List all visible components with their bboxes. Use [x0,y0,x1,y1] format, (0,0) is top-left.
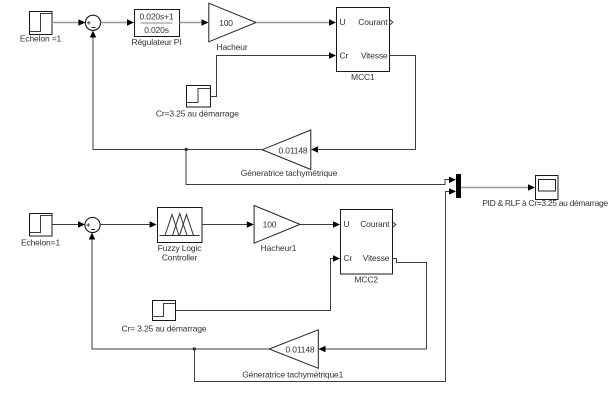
mux [456,174,461,198]
gain Hacheur (100) [209,3,256,52]
wire MCC2 Vitesse to gain tachymétrique1 [319,259,427,353]
wire PI block to gain Hacheur [180,19,209,25]
wire gain Hacheur1 to MCC2 port U [300,221,340,227]
wire mux to scope [461,184,535,190]
svg-text:Vitesse: Vitesse [361,50,388,60]
wire step2 to sum2 [52,221,85,227]
svg-text:PID & RLF à Cr=3.25 au démarra: PID & RLF à Cr=3.25 au démarrage [482,198,608,208]
wire gain tachymétrique to sum1 (feedback) [90,31,262,150]
transfer function Régulateur PI [131,10,181,47]
junction node top feedback [185,148,188,151]
wire step Cr1 to MCC1 port Cr [211,52,337,96]
Fuzzy Logic Controller block [158,208,203,263]
svg-text:Géneratrice tachymétrique: Géneratrice tachymétrique [241,168,338,178]
step source Cr= 3.25 au démarrage (bottom) [122,301,207,334]
svg-text:Echelon=1: Echelon=1 [21,238,60,248]
subsystem MCC1 [337,8,393,83]
svg-text:100: 100 [219,18,233,28]
wire sum2 to Fuzzy Logic Controller [100,221,157,227]
wire gain Hacheur to MCC1 port U [256,19,336,25]
svg-text:0.01148: 0.01148 [285,345,314,355]
svg-text:100: 100 [263,220,277,230]
svg-text:U: U [340,17,346,27]
wire MCC1 Vitesse to gain tachymétrique [311,56,416,153]
svg-text:U: U [344,219,350,229]
svg-text:0.020s: 0.020s [144,25,169,35]
svg-text:Hacheur: Hacheur [216,42,247,52]
svg-text:Cr=3.25 au démarrage: Cr=3.25 au démarrage [156,108,239,118]
svg-text:Fuzzy Logic: Fuzzy Logic [158,243,203,253]
junction node bottom feedback [193,347,196,350]
gain Hacheur1 (100) [254,206,300,254]
svg-text:Courant: Courant [360,219,390,229]
svg-text:MCC1: MCC1 [351,72,375,82]
svg-text:Echelon =1: Echelon =1 [20,33,62,43]
wire step Cr2 to MCC2 port Cr [176,255,341,310]
svg-text:Hacheur1: Hacheur1 [261,243,297,253]
svg-text:Courant: Courant [358,17,388,27]
svg-text:MCC2: MCC2 [354,274,378,284]
step source Echelon=1 (bottom) [21,214,60,248]
subsystem MCC2 [341,210,396,285]
wire FLC to gain Hacheur1 [202,221,254,227]
svg-text:Cr: Cr [340,50,349,60]
wire junction to mux input 2 [194,188,456,381]
svg-text:Géneratrice tachymétrique1: Géneratrice tachymétrique1 [242,370,343,380]
step source Echelon =1 [20,12,62,44]
wire junction to mux input 1 [186,150,456,185]
svg-text:Cr= 3.25 au démarrage: Cr= 3.25 au démarrage [122,323,207,333]
wire step1 to sum1 [52,19,85,25]
gain Génératrice tachymétrique1 (0.01148) [242,330,343,380]
svg-text:0.020s+1: 0.020s+1 [139,12,173,22]
scope PID & RLF [482,176,608,209]
svg-text:Régulateur PI: Régulateur PI [131,37,181,47]
svg-text:Controller: Controller [162,252,198,262]
svg-text:Cr: Cr [344,253,353,263]
svg-text:Vitesse: Vitesse [363,253,390,263]
sum junction S1 [85,15,100,30]
svg-text:0.01148: 0.01148 [278,145,307,155]
wire sum1 to PI block [101,19,134,25]
wire gain tachymétrique1 to sum2 (feedback) [89,233,269,350]
gain Génératrice tachymétrique (0.01148) [241,130,338,178]
sum junction S2 [85,217,100,232]
step source Cr=3.25 au démarrage [156,86,239,119]
